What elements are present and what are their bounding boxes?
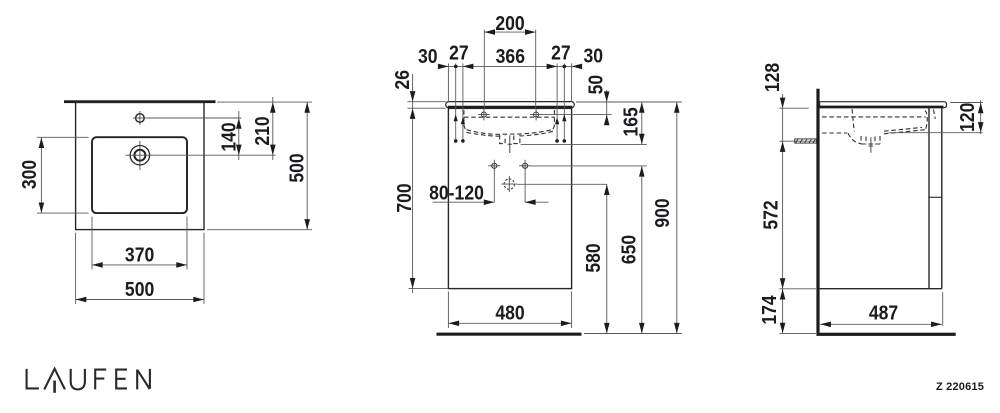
svg-text:120: 120 [956, 103, 978, 132]
floor extension right [584, 333, 682, 335]
svg-text:500: 500 [285, 153, 307, 182]
letter L [27, 369, 39, 389]
svg-text:174: 174 [758, 295, 780, 325]
svg-text:30: 30 [418, 45, 438, 67]
svg-text:650: 650 [617, 235, 639, 264]
door joint [929, 196, 942, 198]
small arrows on screw lines [454, 114, 458, 121]
tap hole circle [130, 146, 149, 165]
center drain symbol [504, 179, 514, 189]
dim 26 + 700 shared line [412, 74, 414, 293]
svg-text:900: 900 [651, 198, 673, 227]
cabinet body [448, 108, 571, 288]
svg-text:165: 165 [620, 107, 642, 136]
dim 174 [780, 289, 786, 300]
dim 128/572/174 shared line [782, 94, 784, 333]
svg-text:50: 50 [585, 75, 607, 95]
bottom extension to 500 right [207, 229, 312, 231]
svg-text:30: 30 [584, 45, 604, 67]
letter E [116, 370, 127, 389]
dim 300 left [37, 136, 89, 138]
svg-text:580: 580 [582, 243, 604, 272]
dim 50 [606, 90, 608, 125]
dim 140 [238, 111, 240, 160]
svg-text:128: 128 [761, 63, 783, 92]
countertop / washbasin slab [446, 102, 575, 108]
cabinet bottom [820, 288, 942, 290]
faucet hole right [534, 112, 539, 117]
drain holes 80-120 [492, 163, 497, 168]
screw position extension lines [455, 63, 457, 139]
door front face [941, 108, 943, 289]
dim 650 [641, 166, 643, 334]
cabinet edge extensions above top [447, 63, 449, 101]
floor bar [437, 333, 582, 336]
leader drain height [531, 165, 647, 167]
svg-text:366: 366 [496, 45, 525, 67]
svg-text:700: 700 [393, 183, 415, 212]
dim 165 [641, 102, 643, 144]
letter A with arrow [44, 369, 65, 390]
svg-text:27: 27 [449, 42, 469, 64]
dim 487 [942, 292, 944, 326]
top extension line right of countertop [576, 101, 682, 103]
dim 370 [91, 217, 93, 270]
dim 572 [780, 278, 786, 289]
dim 200 [484, 31, 535, 33]
countertop slab [820, 102, 947, 108]
svg-text:27: 27 [551, 42, 571, 64]
svg-text:487: 487 [869, 301, 898, 323]
fixing screw symbol [779, 140, 816, 142]
svg-text:26: 26 [391, 70, 413, 90]
faucet hole left [481, 112, 486, 117]
cabinet carcass front [928, 108, 930, 289]
dim 210 [272, 97, 274, 160]
svg-text:140: 140 [217, 122, 239, 151]
svg-text:370: 370 [125, 243, 154, 265]
basin inner rim rect [92, 137, 187, 213]
drain center line [509, 135, 511, 153]
svg-text:210: 210 [251, 116, 273, 145]
svg-text:80-120: 80-120 [429, 181, 484, 203]
120 extension line [889, 132, 983, 134]
basin dashed profile [822, 109, 935, 144]
dim 120 [951, 102, 983, 104]
dim 500 right [306, 102, 308, 230]
dim chain 30/27/366/27/30 [438, 65, 582, 67]
dim 580 [606, 184, 608, 333]
washbasin outer square [76, 102, 204, 229]
svg-text:Z 220615: Z 220615 [936, 381, 984, 393]
wall bar (thick top line) [64, 100, 216, 103]
letter U [71, 369, 85, 390]
top extension line (right) [217, 101, 312, 103]
screw dots [454, 139, 458, 143]
faucet extension lines [483, 30, 485, 110]
drain center line (side) [870, 137, 872, 153]
svg-text:200: 200 [495, 12, 524, 34]
letter N [137, 369, 150, 390]
dim 80-120 [493, 172, 495, 202]
svg-text:300: 300 [18, 160, 40, 189]
leader from tap hole to 210 dim [155, 154, 276, 156]
dim 480 [447, 292, 449, 329]
svg-text:480: 480 [495, 301, 524, 323]
dim 500 bottom [75, 233, 77, 304]
leader from overflow hole to 140 dim [147, 117, 242, 119]
dim 900 [676, 102, 678, 334]
letter F [95, 370, 106, 390]
svg-text:572: 572 [760, 200, 782, 229]
svg-text:500: 500 [125, 278, 154, 300]
basin dashed outline [464, 110, 555, 144]
floor bar [816, 333, 955, 336]
overflow hole (small circle) [136, 114, 145, 123]
wall bar [816, 89, 819, 333]
